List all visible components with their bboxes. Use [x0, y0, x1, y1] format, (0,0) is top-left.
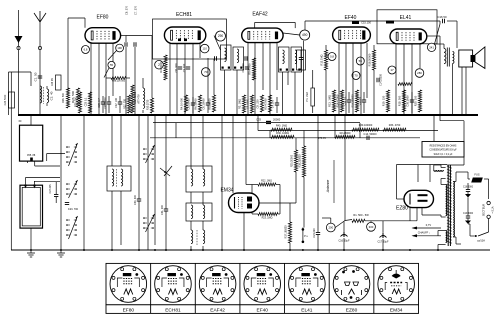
- tuning range box 1: [20, 125, 43, 161]
- svg-text:70: 70: [354, 74, 358, 78]
- capacitor C10: [241, 63, 249, 73]
- capacitor C29: [115, 96, 122, 113]
- svg-text:C27.325: C27.325: [49, 184, 52, 194]
- svg-text:C6.50000: C6.50000: [187, 98, 191, 110]
- svg-text:C24. 5000: C24. 5000: [5, 94, 7, 105]
- resistor R26: [71, 88, 80, 107]
- capacitor C15 black: [352, 21, 371, 25]
- resistor R9c: [247, 95, 254, 113]
- wire to 241: [435, 21, 441, 44]
- heater line 6,3V: [412, 223, 442, 237]
- label EM34: [220, 188, 233, 194]
- capacitor C12: [343, 92, 352, 113]
- wire EL41 pins: [396, 44, 420, 115]
- capacitor C25: [105, 96, 111, 113]
- wire top feedback: [305, 21, 440, 30]
- svg-text:C18.5000: C18.5000: [463, 187, 474, 189]
- capacitor C17b: [406, 92, 415, 113]
- resistor R26b: [75, 92, 82, 113]
- label EAF42: [252, 12, 268, 18]
- ground symbol G2: [27, 250, 35, 257]
- svg-text:R8.30000: R8.30000: [207, 98, 211, 110]
- svg-text:R25.20000: R25.20000: [291, 154, 294, 167]
- capacitor C32: [202, 58, 211, 113]
- resistor R8b: [207, 59, 215, 112]
- svg-text:C8. 100: C8. 100: [174, 63, 178, 73]
- svg-text:C25 0,1: C25 0,1: [85, 97, 88, 106]
- switch bank S2b: [143, 214, 154, 232]
- tube base EF80: [110, 266, 147, 314]
- svg-text:EAF42: EAF42: [252, 12, 268, 18]
- capacitor C9: [187, 97, 196, 113]
- svg-text:ca/13A: ca/13A: [477, 240, 485, 243]
- tube base EM34: [374, 263, 415, 313]
- resistor R28: [85, 92, 92, 113]
- trimmer arrows: [160, 166, 172, 176]
- svg-text:EZ80: EZ80: [396, 206, 408, 212]
- svg-text:CONDENSATEURS EN μF: CONDENSATEURS EN μF: [429, 149, 457, 152]
- capacitor C8: [174, 63, 182, 73]
- svg-text:C16.5000: C16.5000: [406, 95, 410, 107]
- svg-text:C33: C33: [256, 118, 261, 122]
- svg-text:R22..1MΩ: R22..1MΩ: [261, 180, 272, 183]
- resistor R32: [131, 85, 137, 113]
- tube EZ80 V6: [404, 190, 434, 207]
- oscillator coil box L4: [233, 47, 244, 70]
- test point 280: [415, 69, 424, 78]
- capacitor C18 mains: [463, 183, 474, 198]
- capacitor C31: [161, 115, 168, 250]
- wire EAF42 pins: [248, 43, 277, 115]
- wire B plus: [409, 208, 411, 221]
- svg-text:R88.200 000: R88.200 000: [112, 81, 126, 83]
- svg-text:C12 0,1: C12 0,1: [343, 96, 347, 106]
- resistor R10: [255, 95, 263, 112]
- resistor R16: [368, 45, 376, 115]
- test point 110: [200, 44, 209, 53]
- bus junction dots: [30, 114, 471, 116]
- svg-text:241: 241: [429, 45, 434, 49]
- svg-text:Antenne: Antenne: [326, 180, 330, 194]
- svg-text:C13.50: C13.50: [358, 96, 362, 105]
- decoupling line B: [258, 130, 438, 132]
- svg-text:R30.100000: R30.100000: [359, 124, 373, 127]
- resistor R35 vertical: [299, 131, 306, 228]
- svg-text:R28. 250: R28. 250: [75, 96, 78, 107]
- svg-text:R9.47000: R9.47000: [248, 63, 252, 75]
- small black electrode marks ECH81: [178, 39, 187, 42]
- svg-text:EF40: EF40: [345, 15, 357, 21]
- svg-text:EM34: EM34: [390, 308, 403, 314]
- svg-text:C30. 400: C30. 400: [134, 194, 137, 205]
- svg-text:SECTEUR: SECTEUR: [482, 204, 486, 217]
- IF transformer T1 box: [107, 166, 131, 191]
- test point 70b: [352, 72, 360, 80]
- svg-text:70: 70: [204, 70, 208, 74]
- capacitor C5: [98, 96, 105, 113]
- svg-text:R33. 4700: R33. 4700: [389, 124, 401, 127]
- capacitor C17 electrolytic: [377, 221, 389, 250]
- resistor R21: [413, 90, 421, 112]
- wire mains top: [453, 172, 488, 199]
- mains switch: [468, 219, 489, 243]
- label EF40: [345, 15, 357, 21]
- coil L1 antenna transformer: [40, 86, 54, 106]
- label Antenne: [326, 160, 334, 203]
- wire switch column: [61, 115, 84, 250]
- test point 17: [388, 66, 396, 74]
- svg-text:290: 290: [218, 34, 224, 38]
- svg-text:R35.200000: R35.200000: [299, 154, 302, 168]
- tube base EZ80: [329, 263, 370, 313]
- resistor R17 rect style: [306, 70, 315, 113]
- svg-text:C1. 50: C1. 50: [34, 72, 38, 81]
- svg-text:R4.10 000: R4.10 000: [179, 97, 183, 110]
- tuning gang box 2: [20, 181, 43, 228]
- label 60: [19, 120, 22, 123]
- resistor R14: [335, 90, 343, 112]
- resistor R11: [263, 95, 271, 112]
- mains filter box: [5, 92, 15, 108]
- resistor R2: [335, 132, 355, 138]
- svg-text:C4.100: C4.100: [271, 99, 275, 108]
- label ECH81: [176, 12, 192, 18]
- wire switch2 col: [148, 115, 155, 250]
- resistor R27 screen: [111, 77, 126, 83]
- coil assembly box L5: [186, 166, 212, 192]
- svg-text:R13. 1MΩ: R13. 1MΩ: [327, 95, 331, 107]
- svg-text:C8. 220: C8. 220: [255, 99, 259, 109]
- loudspeaker LS: [459, 47, 485, 69]
- resistor R12 grid: [320, 45, 328, 115]
- svg-text:20000: 20000: [273, 118, 281, 122]
- antenna J1 (earth/aux input): [15, 10, 23, 115]
- svg-text:EF80: EF80: [123, 308, 135, 314]
- test point 55: [104, 61, 115, 77]
- svg-text:R14.47000: R14.47000: [335, 94, 339, 107]
- wire interstage: [126, 36, 152, 61]
- resistor R9: [248, 58, 256, 80]
- label EF80: [97, 15, 109, 21]
- svg-text:EL41: EL41: [400, 15, 412, 21]
- svg-text:R15.200000: R15.200000: [351, 94, 354, 108]
- capacitor C16 electrolytic: [338, 222, 350, 251]
- decoupling line A: [153, 118, 360, 125]
- transformer primary winding: [434, 165, 444, 171]
- wire EAF42 top loop: [255, 22, 296, 28]
- transformer heater winding: [446, 231, 447, 243]
- svg-text:R36. 10MΩ: R36. 10MΩ: [276, 132, 289, 135]
- svg-text:EM34: EM34: [220, 188, 233, 194]
- resistor R30c: [147, 60, 154, 113]
- transformer HT winding: [446, 185, 447, 216]
- svg-text:SAUF 0,1 = 0,1 μF: SAUF 0,1 = 0,1 μF: [434, 153, 453, 156]
- capacitor C30: [134, 115, 141, 250]
- resistor R23: [258, 213, 278, 220]
- decoupling line C: [150, 137, 420, 139]
- tube EF80 V1: [85, 28, 121, 44]
- svg-text:R4.40000: R4.40000: [159, 61, 163, 73]
- resistor R1 mains dropper: [352, 208, 417, 223]
- IF transformer T2 box a: [279, 47, 290, 72]
- capacitor C13: [358, 92, 367, 113]
- svg-text:FUS: FUS: [474, 173, 479, 177]
- wire secondary bottom: [453, 237, 461, 244]
- capacitor C27: [134, 5, 138, 115]
- svg-text:C7. 270: C7. 270: [134, 5, 138, 15]
- wire coils: [191, 115, 203, 250]
- output transformer T4: [444, 48, 454, 67]
- svg-text:RESISTANCES EN OHMS: RESISTANCES EN OHMS: [430, 144, 457, 147]
- switch bank S1c: [66, 216, 77, 239]
- capacitor C23: [65, 203, 79, 212]
- wire midfield verticals: [246, 115, 360, 223]
- tube EL41 V5: [390, 29, 427, 44]
- screen box ECH81: [153, 19, 227, 59]
- ground bus: [11, 249, 490, 251]
- svg-text:C21.220: C21.220: [313, 228, 316, 238]
- wire box connections: [26, 115, 66, 250]
- svg-text:0,7V: 0,7V: [426, 223, 432, 227]
- mains terminals SECTEUR: [482, 201, 495, 218]
- capacitor C21: [313, 115, 320, 250]
- osc trim cap a: [215, 56, 217, 60]
- wire EF80 grid from AGC: [68, 18, 91, 115]
- tube base EF40: [240, 263, 281, 313]
- test point 290: [216, 31, 226, 41]
- test point 55b: [356, 57, 364, 65]
- coil assembly box L6: [186, 203, 212, 221]
- test point 2: [155, 60, 164, 69]
- svg-text:C23. 700: C23. 700: [68, 208, 79, 211]
- coil L7: [191, 230, 205, 246]
- svg-text:170-0V: 170-0V: [318, 137, 326, 140]
- svg-text:C26 PU: C26 PU: [52, 78, 54, 86]
- junction P: [302, 228, 309, 244]
- svg-text:EZ80: EZ80: [346, 308, 358, 314]
- label EZ80: [396, 206, 408, 212]
- svg-text:110: 110: [203, 47, 208, 51]
- capacitor C19 mains: [463, 198, 474, 225]
- wire right verticals: [433, 115, 435, 142]
- resistor R31: [124, 95, 131, 113]
- svg-text:R40. 1MΩ: R40. 1MΩ: [276, 125, 287, 128]
- wire ECH81 pins: [170, 44, 200, 116]
- resistor R20: [397, 83, 412, 112]
- resistor R33: [383, 124, 406, 131]
- wire osc: [214, 36, 237, 116]
- svg-text:C6.10000: C6.10000: [202, 98, 206, 110]
- svg-text:6,8: 6,8: [84, 48, 88, 52]
- svg-text:C31. 200: C31. 200: [161, 204, 164, 215]
- wire EZ80 box: [397, 165, 448, 200]
- resistor R13: [327, 90, 335, 112]
- svg-text:C26. 0,7: C26. 0,7: [98, 98, 101, 108]
- coil L2b choke: [138, 78, 145, 113]
- resistor R25b on AGC: [62, 88, 70, 108]
- wire EZ80 pins: [422, 208, 441, 215]
- resistor R25 vertical: [291, 138, 298, 203]
- capacitor C26 coupling: [121, 5, 129, 115]
- detector box: [297, 50, 306, 70]
- oscillator coil box L3: [221, 45, 232, 70]
- wire speaker leads: [453, 64, 467, 116]
- tube base EAF42: [195, 263, 236, 313]
- switch bank S2a: [143, 145, 154, 163]
- test point 190: [108, 44, 124, 60]
- svg-text:C8. 220: C8. 220: [241, 63, 245, 73]
- notice box: [422, 142, 464, 158]
- tube base diagram frame: [106, 263, 419, 313]
- IF transformer T2 box b: [291, 47, 302, 72]
- svg-text:55: 55: [110, 63, 113, 67]
- capacitor C14b: [364, 133, 378, 140]
- svg-text:R3. 1MΩ: R3. 1MΩ: [239, 99, 242, 109]
- wire T2 down: [283, 72, 296, 115]
- svg-text:ECH81: ECH81: [176, 12, 192, 18]
- svg-text:R5.47000: R5.47000: [263, 98, 267, 110]
- wire EF80 electrodes: [99, 43, 113, 115]
- wire screen node: [106, 77, 130, 79]
- tube ECH81 V2: [164, 27, 205, 44]
- svg-text:C3 100: C3 100: [182, 63, 186, 72]
- resistor R7: [179, 95, 187, 112]
- svg-text:EL41: EL41: [301, 308, 313, 314]
- svg-text:C14.20000: C14.20000: [380, 73, 383, 85]
- test point 70 osc: [202, 68, 211, 77]
- resistor R36: [271, 132, 294, 139]
- svg-text:C6. 270: C6. 270: [125, 5, 129, 15]
- resistor R9b: [239, 95, 246, 113]
- resistor R37 vertical: [285, 203, 292, 250]
- resistor R4: [159, 55, 167, 80]
- svg-text:EAF42: EAF42: [210, 308, 225, 314]
- capacitor C1: [34, 72, 43, 81]
- svg-text:ATT 4TV: ATT 4TV: [138, 94, 141, 104]
- wire left frame: [9, 72, 32, 115]
- resistor R40: [271, 125, 292, 132]
- test point 6,8: [82, 46, 90, 54]
- tube base EL41: [285, 263, 326, 313]
- svg-text:C16 50: C16 50: [437, 15, 446, 19]
- wire EM34 loop: [244, 185, 296, 251]
- switch bank S1a: [66, 143, 77, 166]
- svg-text:R19. 150: R19. 150: [381, 95, 385, 106]
- resistor R22: [258, 180, 276, 187]
- svg-text:ECH81: ECH81: [165, 308, 181, 314]
- test point 490: [283, 30, 310, 40]
- power transformer T5 core: [447, 165, 452, 246]
- capacitor C14 coupling: [377, 73, 383, 85]
- svg-text:EF40: EF40: [257, 308, 269, 314]
- svg-text:R12.1MΩ: R12.1MΩ: [320, 54, 324, 65]
- tube base ECH81: [151, 263, 192, 313]
- svg-text:R32. 10000: R32. 10000: [134, 91, 137, 104]
- svg-text:C19.5000: C19.5000: [463, 213, 474, 215]
- svg-text:P 4. 1MΩ: P 4. 1MΩ: [306, 92, 309, 102]
- wire EF40 pins: [339, 43, 367, 115]
- transformer secondary winding: [453, 182, 454, 237]
- capacitor C11: [271, 97, 280, 113]
- label 170-0V: [318, 137, 326, 140]
- wire transformer primary: [427, 36, 464, 165]
- resistor R15: [351, 90, 358, 112]
- screen box EL41: [377, 10, 437, 44]
- tube EM34 V7: [229, 193, 260, 213]
- svg-text:55: 55: [359, 59, 363, 63]
- wire T1: [112, 115, 121, 250]
- svg-text:17: 17: [390, 68, 394, 72]
- test point 300: [367, 221, 376, 231]
- PU input box: [52, 75, 61, 90]
- svg-text:C28.85000: C28.85000: [105, 97, 107, 109]
- svg-text:EF80: EF80: [97, 15, 109, 21]
- svg-text:190: 190: [117, 46, 122, 50]
- switch bank S1b: [66, 180, 77, 198]
- svg-text:= 0,1A: = 0,1A: [492, 206, 495, 213]
- svg-text:R37.185000: R37.185000: [285, 225, 288, 239]
- svg-text:R23..1MΩ: R23..1MΩ: [262, 217, 273, 220]
- test point 0,8: [328, 53, 336, 61]
- svg-text:CHAUFF ↓: CHAUFF ↓: [418, 231, 431, 235]
- wire mid verticals: [176, 115, 233, 250]
- svg-text:P u: P u: [304, 235, 308, 238]
- ground junction dots: [30, 249, 439, 251]
- capacitor C24: [49, 182, 58, 203]
- capacitor C15b black: [386, 21, 394, 24]
- svg-text:R30.2700: R30.2700: [147, 99, 150, 110]
- svg-text:C27. 100: C27. 100: [115, 97, 118, 107]
- svg-text:C55. 88: C55. 88: [27, 154, 36, 157]
- svg-text:R18. 500: R18. 500: [397, 95, 401, 106]
- resistor R30b: [352, 124, 379, 131]
- svg-text:280: 280: [417, 71, 422, 75]
- svg-text:0,8: 0,8: [330, 55, 334, 59]
- main supply bus: [18, 114, 478, 116]
- svg-text:300: 300: [369, 225, 374, 229]
- svg-text:200: 200: [328, 226, 333, 230]
- left frame wire: [10, 72, 12, 250]
- capacitor C3: [182, 63, 190, 72]
- test point 200: [326, 220, 352, 232]
- tube EAF42 V3: [242, 28, 283, 42]
- svg-text:R20. 100: R20. 100: [413, 95, 417, 106]
- svg-text:R6.10000: R6.10000: [193, 98, 197, 110]
- svg-text:C2. 40: C2. 40: [50, 91, 54, 100]
- capacitor C16 top: [437, 15, 457, 48]
- svg-text:R1. 500 - 5W: R1. 500 - 5W: [353, 213, 369, 217]
- svg-text:R16.50000: R16.50000: [368, 53, 372, 66]
- ground symbol G1: [57, 250, 65, 257]
- test point 241: [427, 43, 435, 51]
- wire 490 down: [303, 41, 305, 115]
- antenna A1: [34, 11, 46, 115]
- resistor R19: [381, 90, 389, 112]
- resistor R8: [193, 95, 201, 112]
- wire transformer left: [438, 165, 446, 250]
- svg-text:C14. 50000: C14. 50000: [364, 133, 378, 136]
- osc trim cap b: [245, 56, 247, 60]
- label EL41: [400, 15, 412, 21]
- svg-text:490: 490: [302, 33, 308, 37]
- fuse FUS: [471, 173, 483, 183]
- tube EF40 V4: [333, 27, 371, 43]
- svg-text:R26. 500: R26. 500: [62, 92, 65, 103]
